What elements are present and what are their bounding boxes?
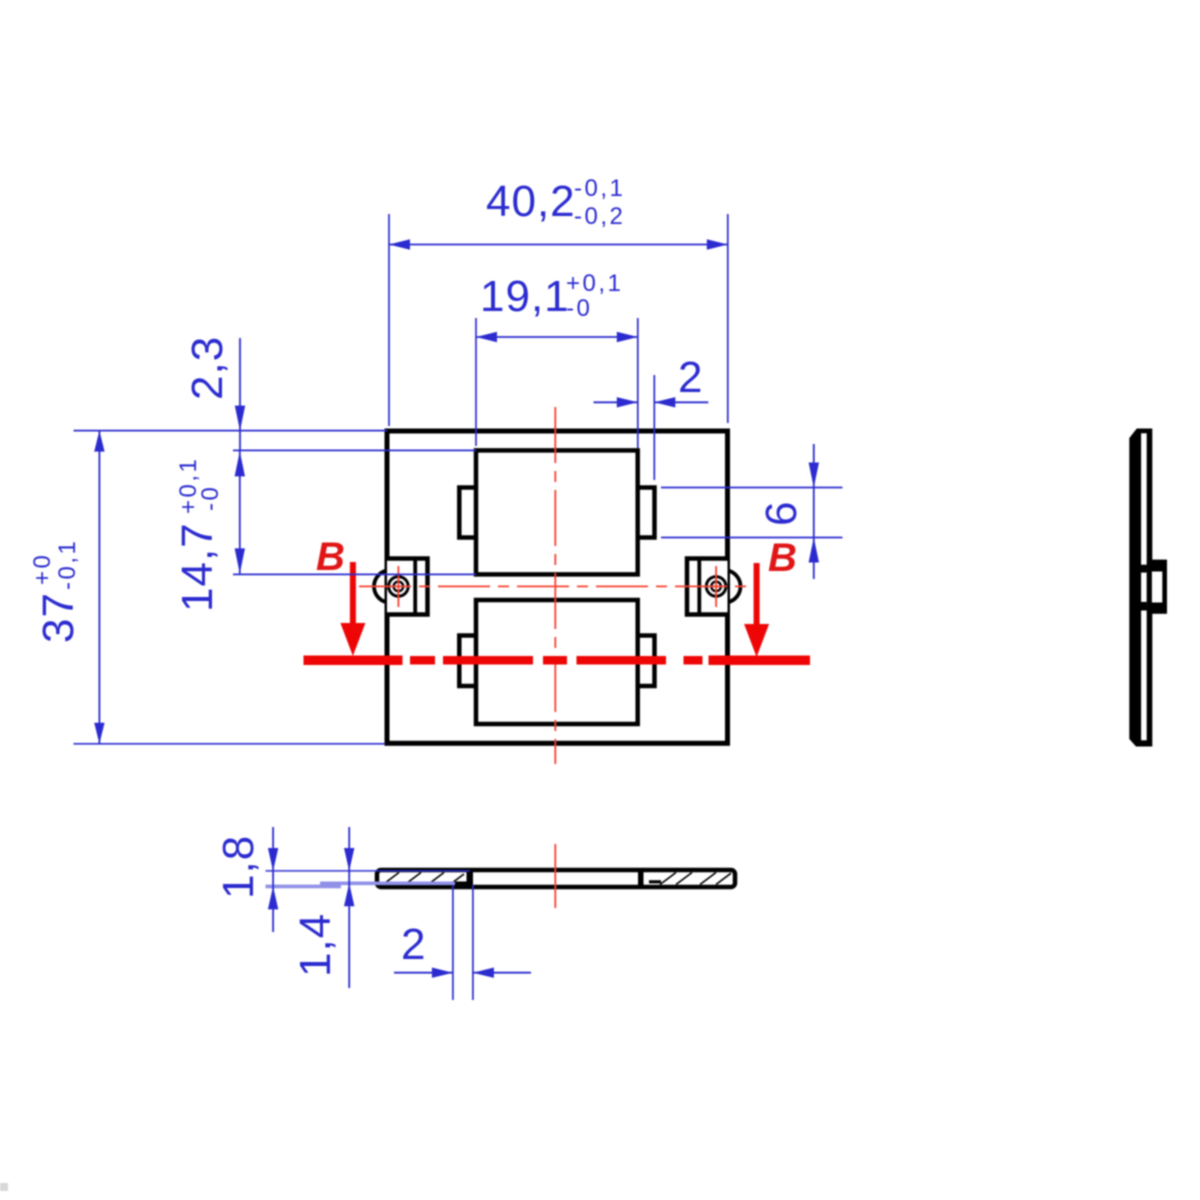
bottom view bar outline: [377, 870, 735, 887]
side view silhouette: [1129, 429, 1152, 747]
right ear slot line: [697, 559, 701, 615]
left ear slot line: [413, 559, 417, 615]
dim 2 (bottom) extension lines: [452, 885, 454, 1000]
right ear body: [687, 559, 728, 615]
red horizontal centerline: [359, 585, 748, 587]
dim 2 (top) line with outside arrows: [594, 401, 638, 403]
right ear boss arc: [727, 570, 740, 602]
red vertical centerline: [554, 407, 556, 764]
upper cutout: [476, 450, 638, 574]
svg-text:40,2: 40,2: [486, 177, 576, 226]
right hole inner circle: [711, 582, 721, 592]
lower cutout: [476, 600, 638, 724]
svg-text:6: 6: [757, 501, 806, 526]
dim 1,8 line: [272, 827, 274, 932]
lower cutout right notch: [638, 636, 655, 687]
side view slot: [1141, 433, 1147, 740]
svg-text:-0,2: -0,2: [574, 203, 625, 230]
svg-text:1,4: 1,4: [291, 913, 340, 977]
side view slot interruptions at tab: [1141, 565, 1147, 573]
section arrow left: [350, 562, 356, 626]
dim 37 extension lines: [74, 430, 388, 432]
front view: plate outline: [387, 431, 728, 743]
dim 14,7 extension lines: [233, 449, 476, 451]
dim 1,4 line: [348, 827, 350, 988]
dim 6 line with outside arrows: [813, 444, 815, 579]
svg-text:2: 2: [401, 920, 426, 969]
svg-text:37: 37: [34, 592, 83, 643]
svg-text:+0,1: +0,1: [566, 270, 623, 297]
dim 40,2 extension lines: [388, 214, 390, 426]
bottom view red centerline: [554, 844, 556, 908]
dim 2,3 line: [239, 338, 241, 450]
dim 2 (top) extension line: [653, 375, 655, 480]
bottom view hatch left: [383, 873, 464, 885]
section B-B thick line left bar: [304, 656, 403, 666]
svg-text:1,8: 1,8: [214, 835, 263, 899]
left ear body: [387, 559, 428, 615]
lower cutout left notch: [459, 636, 476, 687]
svg-text:2,3: 2,3: [183, 336, 232, 400]
left hole outer circle: [389, 577, 409, 597]
svg-text:-0,1: -0,1: [574, 175, 625, 202]
side view tab: [1147, 560, 1167, 614]
svg-text:-0,1: -0,1: [54, 539, 81, 590]
right hole outer circle: [706, 577, 726, 597]
bottom view short thick line right: [649, 880, 661, 883]
dim 40,2 line: [389, 244, 728, 246]
dim 19,1 extension lines: [475, 318, 477, 446]
dim 14,7 line: [239, 450, 241, 574]
left hole crosshair: [397, 566, 399, 607]
light blue line 1,8: [266, 885, 342, 889]
dim 19,1 line: [476, 336, 638, 338]
corner artifact: [0, 1183, 8, 1191]
left ear boss arc: [374, 570, 387, 602]
light blue line 1,4: [320, 881, 455, 885]
upper cutout left notch: [459, 488, 476, 538]
svg-text:14,7: 14,7: [173, 522, 222, 612]
svg-text:B: B: [768, 536, 797, 580]
bottom view left divider: [467, 870, 474, 888]
bottom view blue top line: [266, 870, 471, 872]
bottom view right divider: [638, 870, 644, 888]
svg-text:+0: +0: [29, 553, 56, 585]
upper cutout right notch: [638, 488, 655, 538]
section B-B thick line right bar: [709, 656, 811, 666]
dim 2 (bottom) line with outside arrows: [394, 972, 453, 974]
dim 37 line: [98, 431, 100, 744]
section arrow right: [754, 563, 760, 627]
bottom view hatch right: [660, 873, 731, 885]
svg-text:B: B: [316, 535, 345, 579]
dim 6 extension lines: [661, 487, 843, 489]
right hole crosshair: [715, 566, 717, 607]
svg-text:2: 2: [678, 353, 703, 402]
svg-text:-0: -0: [197, 485, 224, 511]
left hole inner circle: [394, 582, 404, 592]
svg-text:-0: -0: [566, 295, 592, 322]
section B-B dashes: [410, 656, 703, 665]
bottom view step line: [453, 881, 469, 885]
svg-text:19,1: 19,1: [480, 272, 570, 321]
